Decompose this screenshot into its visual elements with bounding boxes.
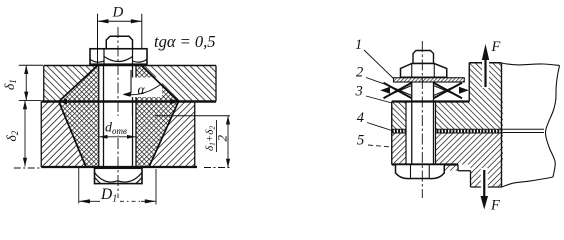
bolt shaft right fig [412, 77, 434, 164]
leader line 3 [366, 96, 392, 103]
centerline left figure [117, 27, 119, 198]
svg-text:3: 3 [355, 83, 363, 99]
bolt protruding end (top) [106, 36, 132, 49]
bolt head right fig [396, 165, 445, 179]
svg-text:5: 5 [357, 132, 364, 148]
hole walls [99, 66, 136, 168]
serration band (contact surface) [392, 129, 503, 134]
leader line 5 (dashed) [368, 145, 392, 147]
svg-text:F: F [490, 198, 500, 214]
plate outlines right fig [392, 63, 560, 187]
bottom plate (delta2), hatched slash [41, 102, 195, 168]
centerline right figure [421, 41, 423, 198]
leader line 1 [364, 50, 394, 79]
force arrow F up [482, 44, 489, 88]
svg-text:2: 2 [215, 135, 230, 142]
svg-text:α: α [138, 82, 146, 97]
svg-text:F: F [491, 39, 501, 55]
bolt hole white band right fig [406, 102, 436, 165]
delta2 dimension [14, 100, 40, 168]
d_otv label [105, 116, 133, 135]
spring washer right half [434, 83, 469, 98]
alpha annotation [121, 78, 162, 98]
svg-text:tgα = 0,5: tgα = 0,5 [154, 32, 216, 51]
nut right fig [401, 64, 447, 78]
lower plate right fig [392, 133, 503, 187]
svg-text:1: 1 [355, 37, 362, 53]
bolt hole white band [99, 66, 136, 168]
hole walls right fig [406, 102, 436, 165]
leader line 4 [367, 123, 392, 131]
bolt shaft walls [104, 64, 133, 167]
upper plate right fig [392, 63, 503, 130]
D dimension [98, 14, 142, 65]
leader line 2 [366, 78, 388, 86]
force arrow F down [481, 168, 489, 210]
pressure cone crosshatched region [59, 66, 179, 168]
nut (left fig) [90, 49, 147, 64]
cone boundary lines [59, 66, 179, 168]
(delta1+delta2)/2 dimension [155, 116, 231, 168]
washer [394, 78, 465, 82]
svg-text:D: D [112, 5, 124, 21]
D1 dimension [79, 168, 156, 205]
plate outlines left figure [41, 66, 216, 168]
delta1 dimension [19, 65, 43, 100]
svg-text:2: 2 [356, 65, 363, 81]
top plate (delta1), hatched backslash [44, 66, 216, 102]
spring washer left half [380, 83, 412, 98]
bolt protruding end right fig [413, 51, 434, 64]
interface double line on unsectioned plate [503, 129, 544, 132]
svg-text:4: 4 [357, 110, 364, 126]
cone vertex arrows (dark convergence) [59, 99, 67, 105]
bolt head (left fig, bottom) [95, 168, 143, 183]
